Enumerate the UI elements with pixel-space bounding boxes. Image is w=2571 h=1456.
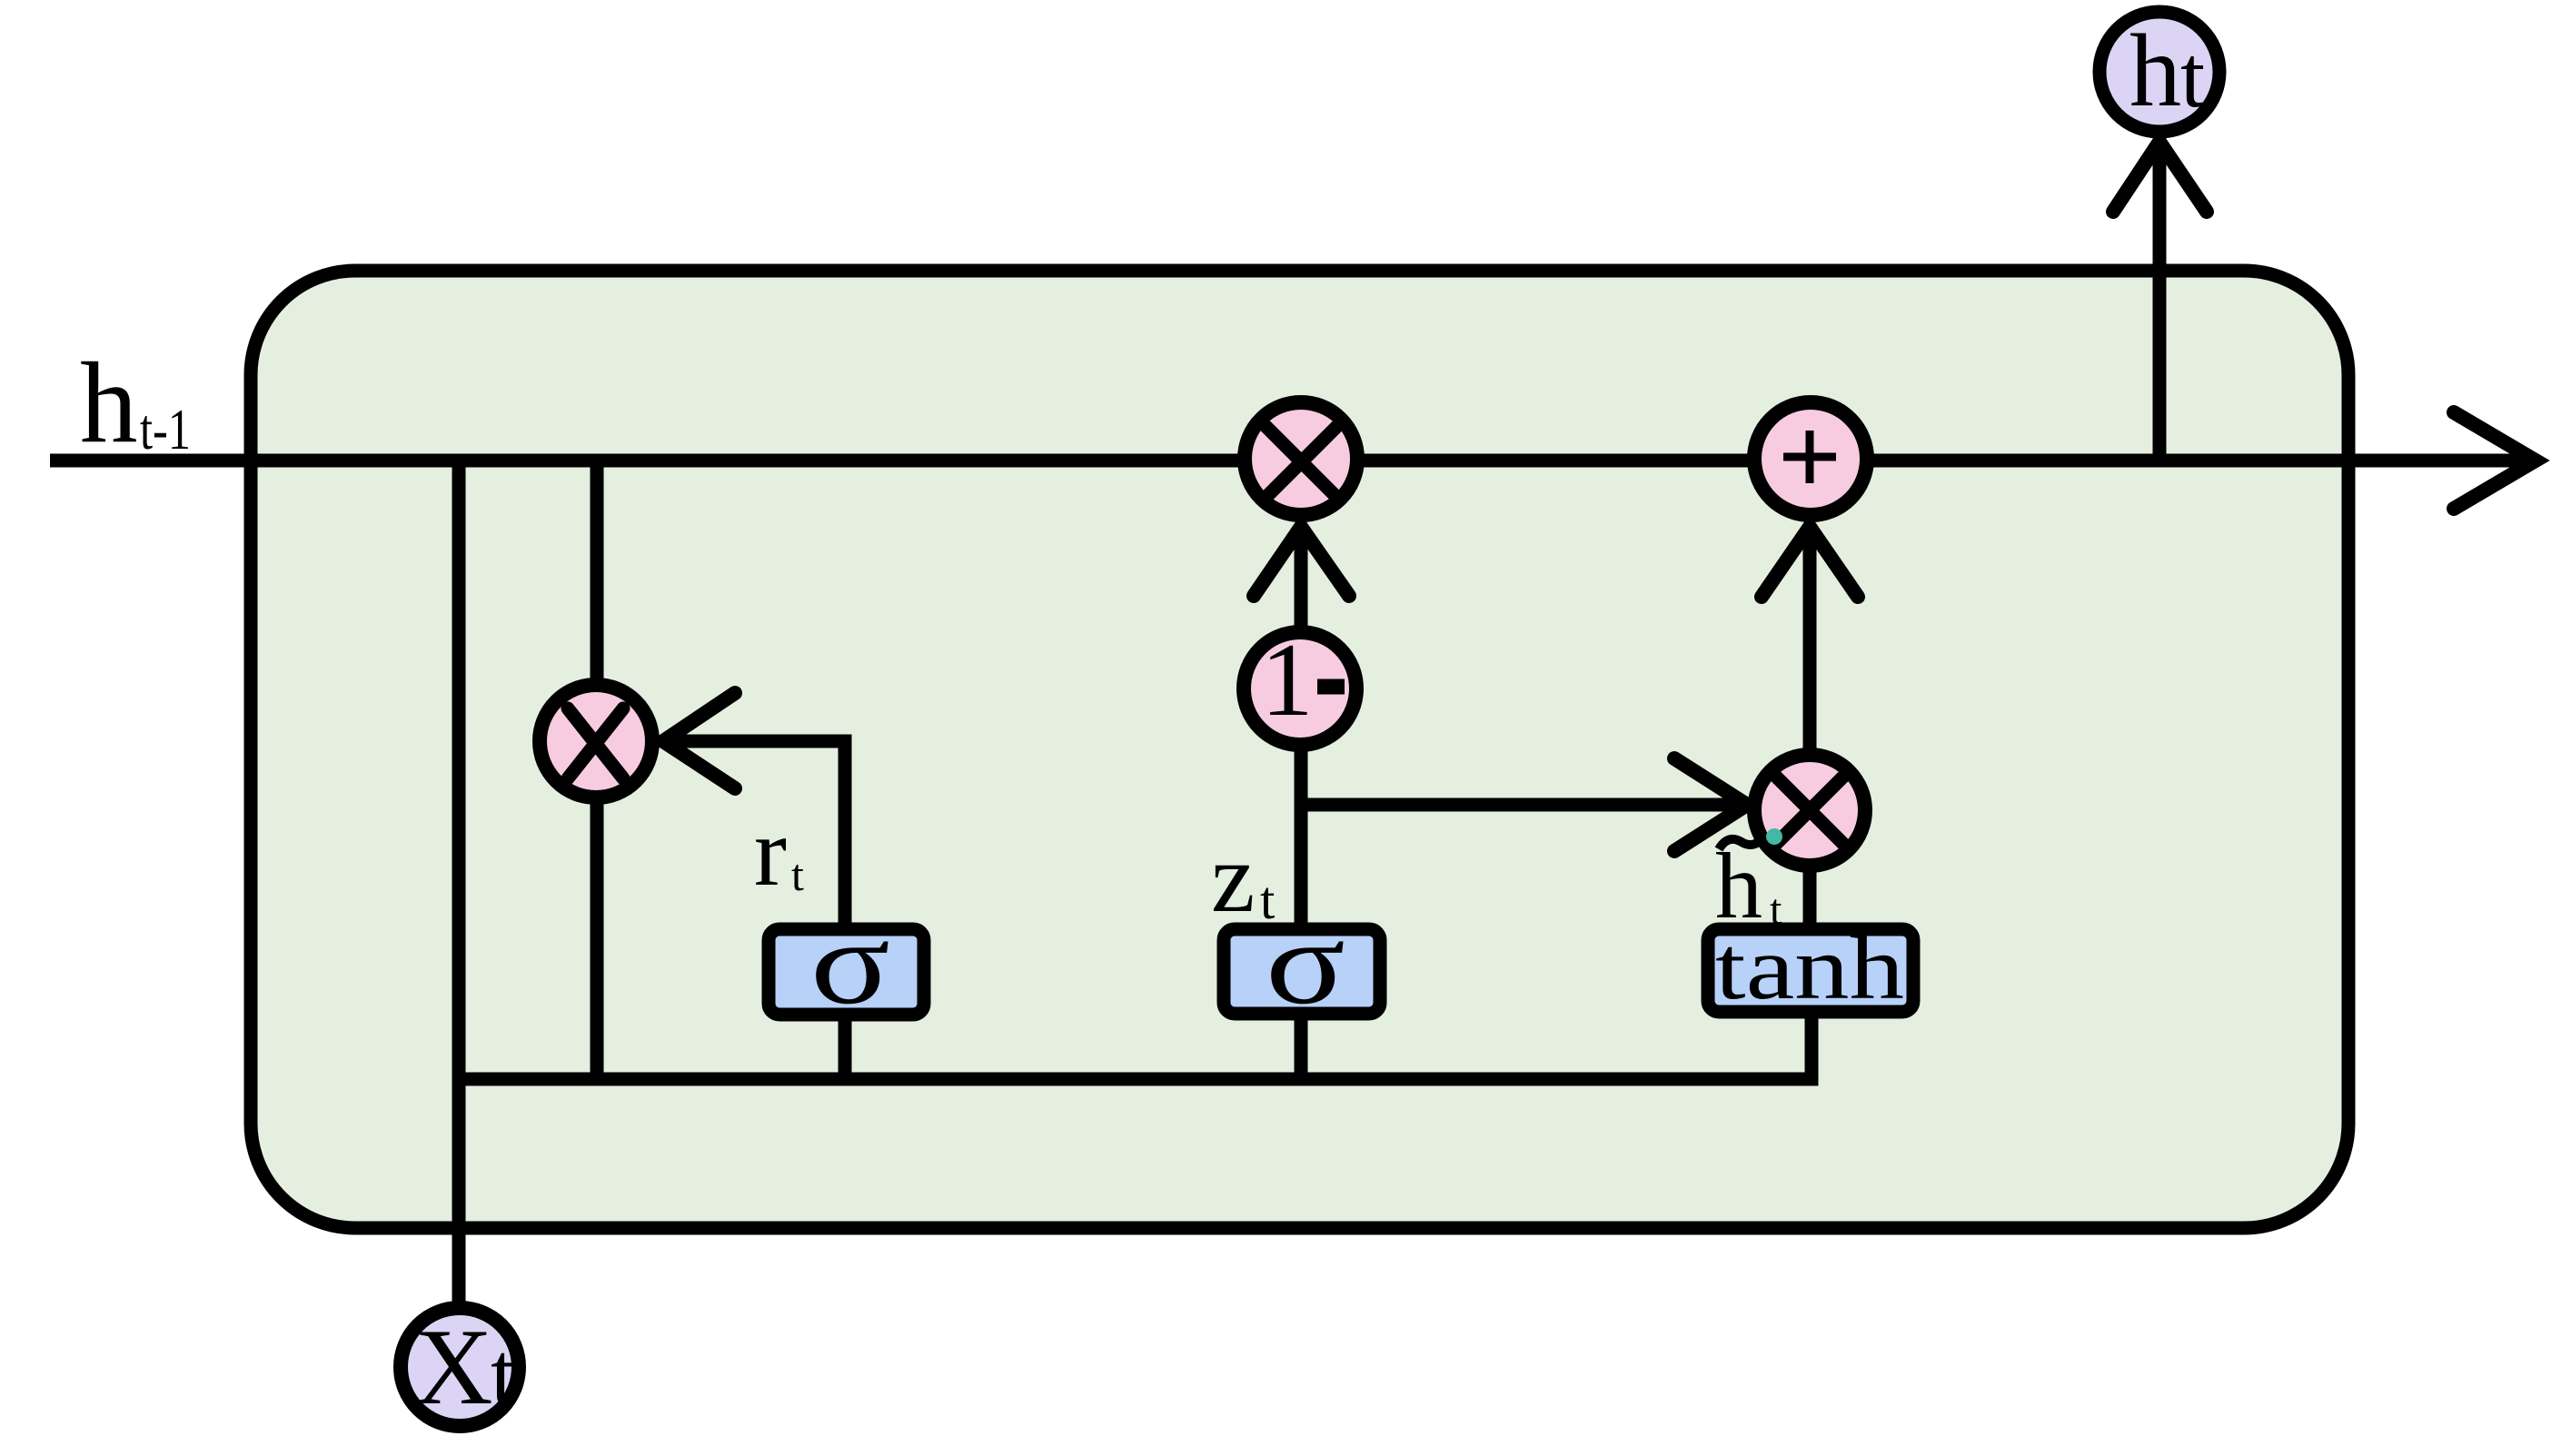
svg-text:h: h <box>80 340 138 467</box>
svg-text:r: r <box>754 798 787 906</box>
svg-text:σ: σ <box>1266 896 1345 1029</box>
svg-text:z: z <box>1211 823 1255 933</box>
svg-text:t: t <box>791 849 804 900</box>
svg-text:σ: σ <box>810 896 890 1029</box>
svg-text:t: t <box>491 1323 516 1424</box>
svg-text:X: X <box>414 1306 493 1427</box>
svg-text:h: h <box>2129 13 2181 128</box>
svg-text:t: t <box>2180 28 2205 126</box>
svg-text:t-1: t-1 <box>140 397 191 461</box>
svg-text:t: t <box>1260 870 1276 930</box>
svg-text:1: 1 <box>1261 622 1314 738</box>
svg-text:t: t <box>1770 886 1782 934</box>
